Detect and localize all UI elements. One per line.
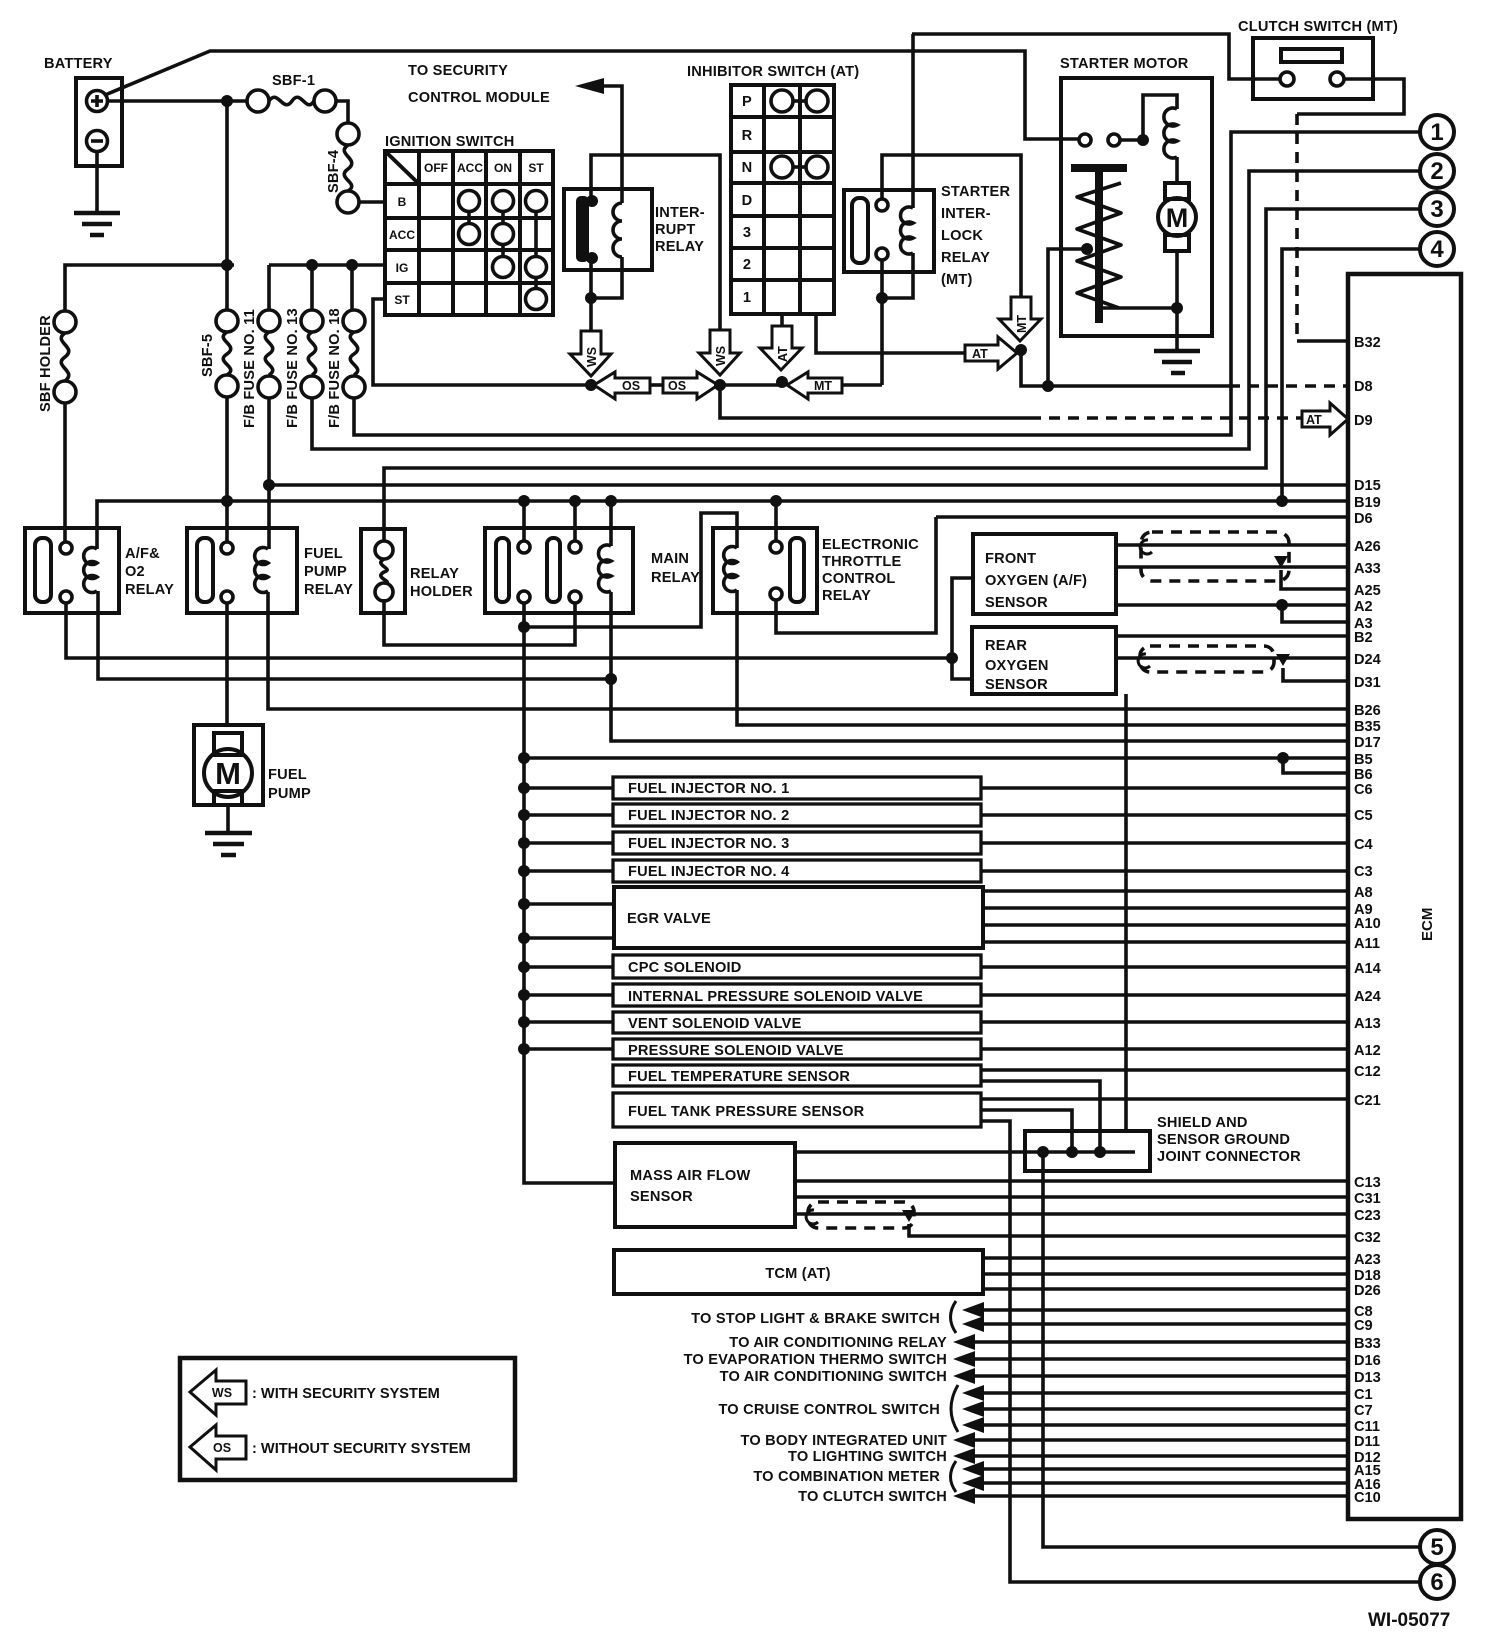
- svg-text:RELAY: RELAY: [651, 570, 700, 586]
- svg-text:: WITHOUT SECURITY SYSTEM: : WITHOUT SECURITY SYSTEM: [252, 1441, 471, 1457]
- TCM box: [614, 1250, 983, 1294]
- ignition contacts IG row: [493, 257, 547, 278]
- arrow to security module: [575, 78, 604, 94]
- node inj1: [518, 782, 530, 794]
- fuse SBF-1: [247, 73, 336, 112]
- svg-text:TO STOP LIGHT & BRAKE SWITCH: TO STOP LIGHT & BRAKE SWITCH: [691, 1311, 940, 1327]
- wire B5 bus: [524, 756, 1348, 760]
- svg-text:RELAY: RELAY: [822, 588, 871, 604]
- wire to ETC coil top: [524, 513, 737, 627]
- legend WS arrow: [190, 1370, 246, 1415]
- svg-text:SENSOR GROUND: SENSOR GROUND: [1157, 1132, 1290, 1148]
- circled 1: [1420, 115, 1454, 149]
- svg-text:3: 3: [1430, 196, 1443, 223]
- node inj2: [518, 809, 530, 821]
- wire A15: [980, 1467, 1348, 1471]
- node main relay feed 1: [518, 495, 530, 507]
- wire D18: [983, 1272, 1348, 1276]
- svg-text:D26: D26: [1354, 1283, 1381, 1299]
- svg-text:PUMP: PUMP: [304, 564, 347, 580]
- wire A14: [981, 965, 1348, 969]
- svg-text:TO CRUISE CONTROL SWITCH: TO CRUISE CONTROL SWITCH: [718, 1402, 940, 1418]
- starter motor coil: [1164, 108, 1177, 158]
- svg-text:D31: D31: [1354, 675, 1381, 691]
- fuse F/B FUSE NO. 13: [285, 308, 323, 428]
- shield MAF arrow: [902, 1210, 916, 1222]
- wire fuel temp ground: [981, 1081, 1100, 1152]
- wire D15 bus: [269, 483, 1348, 487]
- main relay contact bar 1: [496, 538, 509, 602]
- wire D6 bus: [936, 515, 1348, 519]
- arrow MT left: [787, 372, 842, 399]
- wire A25 from shield: [1281, 570, 1348, 589]
- relay holder fuse: [375, 541, 393, 601]
- svg-text:D18: D18: [1354, 1268, 1381, 1284]
- wire ETC contact feed: [774, 501, 778, 541]
- wire C31: [795, 1195, 1348, 1199]
- wire bus drop fuse13: [310, 270, 314, 311]
- circled 3: [1420, 192, 1454, 226]
- svg-text:INTERNAL PRESSURE SOLENOID VAL: INTERNAL PRESSURE SOLENOID VALVE: [628, 989, 923, 1005]
- fuse SBF HOLDER: [38, 311, 76, 412]
- wire C4: [981, 841, 1348, 845]
- svg-text:OXYGEN: OXYGEN: [985, 658, 1049, 674]
- svg-text:C9: C9: [1354, 1318, 1373, 1334]
- wire D8 dashed: [1229, 384, 1348, 388]
- svg-text:AT: AT: [1306, 413, 1322, 427]
- wire AT MT node to D8: [1021, 350, 1048, 386]
- ground starter motor: [1154, 351, 1200, 373]
- svg-text:RELAY: RELAY: [125, 582, 174, 598]
- ignition column connectors: [469, 212, 536, 288]
- node joint 3: [1094, 1146, 1106, 1158]
- node starter coil junction: [1137, 134, 1149, 146]
- wire AF contact bottom to heater bus: [66, 603, 952, 658]
- interrupt relay coil: [613, 203, 622, 257]
- svg-text:M: M: [1166, 203, 1189, 233]
- brace combination: [951, 1461, 957, 1492]
- svg-text:OS: OS: [622, 379, 640, 393]
- svg-text:HOLDER: HOLDER: [410, 584, 473, 600]
- wire ETC coil bottom to B35: [737, 590, 1348, 725]
- wire MT feed from plunger: [1048, 249, 1090, 386]
- svg-text:C12: C12: [1354, 1064, 1381, 1080]
- ignition contacts ACC row: [459, 224, 514, 245]
- wire node down to D9 line: [720, 385, 1030, 418]
- wire C5: [981, 813, 1348, 817]
- svg-text:F/B FUSE NO. 18: F/B FUSE NO. 18: [327, 308, 343, 428]
- ETC relay contact bar: [790, 538, 804, 602]
- wire main contact1 bottom bus: [524, 603, 613, 1183]
- front oxygen sensor box: [973, 534, 1116, 614]
- ignition contact ST row: [526, 289, 547, 310]
- node starter ground: [1171, 302, 1183, 314]
- svg-text:OS: OS: [668, 379, 686, 393]
- svg-text:MAIN: MAIN: [651, 551, 689, 567]
- fuel tank pressure sensor box: [613, 1093, 981, 1127]
- fuel temperature sensor box: [613, 1065, 981, 1086]
- wire D8 solid: [1048, 384, 1229, 388]
- svg-text:B26: B26: [1354, 703, 1381, 719]
- wire cpc feed: [524, 965, 613, 969]
- arrow D12: [953, 1448, 975, 1464]
- arrow C10: [953, 1488, 975, 1504]
- wire bus drop SBF-5: [225, 270, 229, 310]
- node main relay feed 3: [605, 495, 617, 507]
- svg-text:SENSOR: SENSOR: [985, 595, 1048, 611]
- svg-text:A33: A33: [1354, 561, 1381, 577]
- svg-text:TCM (AT): TCM (AT): [765, 1266, 830, 1282]
- shield front oxygen: [1141, 532, 1289, 581]
- ground battery: [74, 213, 120, 235]
- wire IG fuse bus: [269, 263, 385, 267]
- starter solenoid terminals: [1079, 134, 1120, 146]
- AF relay terminals: [60, 542, 72, 603]
- interrupt relay box: [564, 189, 652, 270]
- svg-text:FUEL INJECTOR NO. 3: FUEL INJECTOR NO. 3: [628, 836, 789, 852]
- shield MAF: [808, 1202, 914, 1228]
- wire D11: [971, 1438, 1348, 1442]
- svg-text:INHIBITOR SWITCH (AT): INHIBITOR SWITCH (AT): [687, 64, 859, 80]
- node WS OS right: [714, 379, 726, 391]
- arrow A15: [962, 1461, 984, 1477]
- wire B6: [1283, 758, 1348, 773]
- wire D31 from shield: [1283, 668, 1348, 681]
- wire inj3 feed: [524, 841, 613, 845]
- interlock coil: [901, 207, 914, 254]
- wire egr1 feed: [524, 902, 614, 906]
- svg-text:D8: D8: [1354, 379, 1373, 395]
- circled 5: [1420, 1530, 1454, 1564]
- svg-text:WS: WS: [585, 347, 599, 367]
- legend box: [180, 1358, 515, 1480]
- svg-text:A2: A2: [1354, 599, 1373, 615]
- wire AT2 feed: [882, 351, 965, 355]
- svg-text:OXYGEN (A/F): OXYGEN (A/F): [985, 573, 1087, 589]
- svg-text:THROTTLE: THROTTLE: [822, 554, 901, 570]
- wire SBF-4 to ignition B row: [359, 200, 385, 204]
- wire security arrow to interrupt coil: [600, 86, 622, 203]
- svg-text:B2: B2: [1354, 630, 1373, 646]
- arrow MT down: [999, 297, 1041, 341]
- arrow C1: [962, 1385, 984, 1401]
- svg-text:ACC: ACC: [457, 161, 483, 175]
- wire inhibitor col1 to AT arrow: [780, 314, 784, 326]
- svg-text:CPC SOLENOID: CPC SOLENOID: [628, 960, 742, 976]
- svg-text:D15: D15: [1354, 478, 1381, 494]
- inhibitor contacts N row: [771, 156, 828, 178]
- wire front sensor left loop: [952, 578, 973, 679]
- wire node to AT MT node: [720, 383, 781, 387]
- fuel injector no2 box: [613, 804, 981, 826]
- AF relay contact bar: [35, 538, 51, 602]
- svg-text:PRESSURE SOLENOID VALVE: PRESSURE SOLENOID VALVE: [628, 1043, 844, 1059]
- svg-text:FUEL INJECTOR NO. 4: FUEL INJECTOR NO. 4: [628, 864, 790, 880]
- svg-text:TO EVAPORATION THERMO SWITCH: TO EVAPORATION THERMO SWITCH: [684, 1352, 947, 1368]
- AF relay coil: [84, 548, 97, 593]
- svg-text:FRONT: FRONT: [985, 551, 1036, 567]
- svg-text:C13: C13: [1354, 1175, 1381, 1191]
- shield MAF pigtail: [806, 1210, 818, 1224]
- vent solenoid box: [613, 1012, 981, 1033]
- svg-text:ST: ST: [528, 161, 544, 175]
- interrupt relay contact: [576, 195, 598, 264]
- wire fuel tank ground: [981, 1110, 1072, 1152]
- node main coil D17: [605, 673, 617, 685]
- svg-text:LOCK: LOCK: [941, 228, 983, 244]
- wire A26: [1116, 543, 1348, 547]
- svg-text:IGNITION SWITCH: IGNITION SWITCH: [385, 134, 514, 150]
- svg-text:A25: A25: [1354, 583, 1381, 599]
- wire inj2 feed: [524, 813, 613, 817]
- node B19 SBF5: [221, 495, 233, 507]
- svg-text:TO BODY INTEGRATED UNIT: TO BODY INTEGRATED UNIT: [741, 1433, 948, 1449]
- wire A33: [1116, 565, 1348, 569]
- node bus fuse13: [306, 259, 318, 271]
- clutch switch blade: [1281, 49, 1342, 62]
- svg-text:SBF HOLDER: SBF HOLDER: [38, 315, 54, 412]
- wire fuse13 to circled2 bus: [312, 171, 1420, 449]
- svg-text:5: 5: [1430, 1534, 1443, 1561]
- wire inj1 feed: [524, 786, 613, 790]
- brace cruise: [951, 1385, 958, 1432]
- svg-text:A23: A23: [1354, 1252, 1381, 1268]
- svg-text:WS: WS: [212, 1386, 232, 1400]
- wire joint1 to circled5: [1043, 1152, 1420, 1547]
- wire A10: [983, 923, 1348, 927]
- svg-text:SENSOR: SENSOR: [985, 677, 1048, 693]
- fuel injector no3 box: [613, 832, 981, 854]
- joint connector box: [1025, 1131, 1150, 1171]
- main relay coil: [599, 545, 612, 592]
- svg-text:F/B FUSE NO. 13: F/B FUSE NO. 13: [285, 308, 301, 428]
- fuel pump relay terminals: [221, 542, 233, 603]
- relay holder box: [361, 529, 405, 613]
- inhibitor contacts P row: [771, 90, 828, 112]
- svg-text:TO SECURITY: TO SECURITY: [408, 63, 508, 79]
- wire battery minus to ground: [95, 152, 99, 212]
- brace stop light: [951, 1301, 957, 1333]
- svg-text:SBF-1: SBF-1: [272, 73, 315, 89]
- svg-text:TO AIR CONDITIONING SWITCH: TO AIR CONDITIONING SWITCH: [720, 1369, 947, 1385]
- svg-text:MT: MT: [1015, 315, 1029, 333]
- wire SBF-5 down to fuel pump relay contact: [225, 397, 229, 542]
- arrow C7: [962, 1401, 984, 1417]
- wire battery plus to SBF-1: [108, 99, 247, 103]
- svg-text:FUEL TEMPERATURE SENSOR: FUEL TEMPERATURE SENSOR: [628, 1069, 850, 1085]
- wire D16: [971, 1357, 1348, 1361]
- svg-text:N: N: [742, 160, 753, 176]
- wire B33: [971, 1340, 1348, 1344]
- starter motor box: [1061, 78, 1212, 336]
- ETC relay box: [713, 528, 817, 613]
- internal pressure solenoid box: [613, 984, 981, 1006]
- svg-text:SHIELD AND: SHIELD AND: [1157, 1115, 1248, 1131]
- fuel injector no4 box: [613, 860, 981, 882]
- svg-text:INTER-: INTER-: [655, 205, 705, 221]
- wire coil to motor: [1175, 157, 1179, 183]
- svg-text:A11: A11: [1354, 936, 1380, 952]
- svg-text:TO AIR CONDITIONING RELAY: TO AIR CONDITIONING RELAY: [729, 1335, 947, 1351]
- wire A13: [981, 1020, 1348, 1024]
- main relay terminals 1: [518, 541, 530, 603]
- svg-text:ELECTRONIC: ELECTRONIC: [822, 537, 919, 553]
- svg-text:EGR VALVE: EGR VALVE: [627, 911, 711, 927]
- fuel pump relay box: [187, 528, 297, 613]
- wire C1: [980, 1391, 1348, 1395]
- battery box: [76, 78, 122, 166]
- wire D9 dashed: [1030, 416, 1302, 420]
- starter motor armature M: [1158, 183, 1196, 251]
- fuel pump motor: [204, 733, 252, 805]
- wire battery diagonal to top bus: [105, 51, 1080, 139]
- wire D13: [971, 1374, 1348, 1378]
- svg-text:: WITH SECURITY SYSTEM: : WITH SECURITY SYSTEM: [252, 1386, 440, 1402]
- battery - terminal: [87, 131, 108, 152]
- svg-text:C4: C4: [1354, 837, 1374, 853]
- svg-text:MASS AIR FLOW: MASS AIR FLOW: [630, 1168, 750, 1184]
- node D8: [1042, 380, 1054, 392]
- wire battery down to fuse bus: [225, 106, 229, 265]
- svg-text:CONTROL MODULE: CONTROL MODULE: [408, 90, 550, 106]
- wire C21: [981, 1097, 1348, 1101]
- svg-text:RELAY: RELAY: [304, 582, 353, 598]
- arrow B33: [953, 1334, 975, 1350]
- svg-text:B6: B6: [1354, 767, 1373, 783]
- svg-text:2: 2: [743, 257, 751, 273]
- svg-text:MT: MT: [814, 379, 832, 393]
- svg-text:B35: B35: [1354, 719, 1381, 735]
- svg-text:AT: AT: [972, 347, 988, 361]
- wire terminal to coil: [1120, 95, 1177, 140]
- fuse SBF-5: [200, 310, 238, 397]
- svg-text:C6: C6: [1354, 782, 1373, 798]
- clutch switch box: [1253, 38, 1373, 99]
- mass air flow sensor box: [615, 1143, 795, 1227]
- node AT MT inhibitor: [776, 376, 788, 388]
- svg-text:AT: AT: [776, 346, 790, 362]
- wire interlock contact bottom vertical: [880, 260, 884, 385]
- svg-text:FUEL: FUEL: [268, 767, 307, 783]
- wire press feed: [524, 1047, 613, 1051]
- wire C9: [980, 1322, 1348, 1326]
- clutch switch terminals: [1280, 72, 1344, 86]
- svg-text:O2: O2: [125, 564, 145, 580]
- ETC relay coil: [724, 546, 737, 591]
- svg-text:M: M: [215, 756, 241, 791]
- svg-text:VENT SOLENOID VALVE: VENT SOLENOID VALVE: [628, 1016, 802, 1032]
- wire A11: [983, 940, 1348, 944]
- node B19 circled4: [1276, 495, 1288, 507]
- svg-text:B32: B32: [1354, 335, 1381, 351]
- arrow AT right: [965, 337, 1017, 369]
- wire A9: [983, 906, 1348, 910]
- svg-text:1: 1: [1430, 119, 1443, 146]
- node A2 A3: [1276, 599, 1288, 611]
- arrow WS 1: [570, 331, 611, 376]
- svg-text:C23: C23: [1354, 1208, 1381, 1224]
- svg-text:TO LIGHTING SWITCH: TO LIGHTING SWITCH: [788, 1449, 947, 1465]
- node main relay feed 2: [569, 495, 581, 507]
- CPC solenoid box: [613, 955, 981, 978]
- AF O2 relay box: [25, 528, 119, 613]
- inhibitor switch table: [731, 85, 834, 314]
- node vent: [518, 1016, 530, 1028]
- svg-text:D11: D11: [1354, 1434, 1380, 1450]
- wire fuel pump relay coil feed: [267, 540, 271, 549]
- shield front arrow: [1274, 556, 1288, 568]
- svg-text:CLUTCH SWITCH (MT): CLUTCH SWITCH (MT): [1238, 19, 1398, 35]
- wire A2: [1116, 603, 1348, 607]
- wire interlock coil top feed: [911, 34, 915, 208]
- svg-text:D9: D9: [1354, 413, 1373, 429]
- fuel pump relay contact bar: [197, 538, 213, 602]
- shield rear arrow: [1276, 654, 1290, 666]
- svg-text:C1: C1: [1354, 1387, 1373, 1403]
- rear oxygen sensor box: [972, 627, 1116, 694]
- svg-text:ON: ON: [494, 161, 512, 175]
- svg-text:C31: C31: [1354, 1191, 1381, 1207]
- svg-text:F/B FUSE NO. 11: F/B FUSE NO. 11: [242, 309, 258, 428]
- wire MT tail to interlock bottom: [843, 383, 882, 387]
- wire SBF holder down to AF relay: [63, 403, 67, 542]
- ground fuel pump: [205, 833, 252, 855]
- svg-text:REAR: REAR: [985, 638, 1027, 654]
- node heater join: [946, 652, 958, 664]
- wire MAF ground to joint connector: [795, 1150, 1135, 1154]
- shield front pigtail: [1140, 540, 1152, 554]
- svg-text:A14: A14: [1354, 961, 1382, 977]
- svg-text:A26: A26: [1354, 539, 1381, 555]
- wire A8: [983, 889, 1348, 893]
- svg-text:B5: B5: [1354, 752, 1373, 768]
- wire B32 stub: [1297, 339, 1348, 343]
- starter plunger spring: [1077, 183, 1121, 308]
- svg-text:IG: IG: [396, 261, 409, 275]
- wire C10: [971, 1494, 1348, 1498]
- svg-text:C32: C32: [1354, 1230, 1381, 1246]
- wire fuse11 down: [267, 398, 271, 540]
- svg-text:SBF-5: SBF-5: [200, 334, 216, 377]
- wire C3: [981, 869, 1348, 873]
- wire egr2 feed: [524, 936, 614, 940]
- fuel pump box: [194, 725, 263, 805]
- node fuse bus left: [221, 259, 233, 271]
- svg-text:INTER-: INTER-: [941, 206, 991, 222]
- svg-text:OFF: OFF: [424, 161, 448, 175]
- wire ST row exit: [373, 299, 591, 385]
- wire inj4 feed: [524, 869, 613, 873]
- svg-text:P: P: [742, 94, 752, 110]
- svg-text:WI-05077: WI-05077: [1368, 1610, 1450, 1631]
- interlock contact bar: [852, 198, 868, 263]
- wire B32 dashed vertical: [1295, 114, 1299, 341]
- wire C6: [981, 786, 1348, 790]
- svg-text:RELAY: RELAY: [410, 566, 459, 582]
- svg-text:PUMP: PUMP: [268, 786, 311, 802]
- svg-text:TO CLUTCH SWITCH: TO CLUTCH SWITCH: [798, 1489, 947, 1505]
- wire between OS arrows: [650, 383, 664, 387]
- node WS OS left: [585, 379, 597, 391]
- arrow C11: [962, 1417, 984, 1433]
- wire fuel tank to circled6: [981, 1121, 1420, 1582]
- wire D26: [983, 1287, 1348, 1291]
- wire interrupt contact bottom to node: [589, 262, 593, 331]
- battery + terminal: [87, 91, 108, 112]
- node B5 B6: [1277, 752, 1289, 764]
- svg-text:A12: A12: [1354, 1043, 1381, 1059]
- shield rear oxygen: [1140, 646, 1274, 672]
